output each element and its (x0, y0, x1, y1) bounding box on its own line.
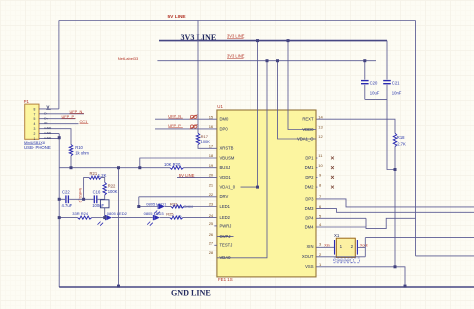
svg-text:DM1: DM1 (305, 165, 315, 170)
wire LED2 row from gnd column (59, 217, 77, 219)
svg-text:U1: U1 (217, 104, 223, 109)
svg-text:DP4: DP4 (305, 216, 314, 221)
wire 5V left drop to P1 VBUS (58, 21, 60, 109)
crystal X1 (334, 233, 360, 263)
svg-text:GND: GND (44, 136, 52, 140)
wire R23 to IC pin23 (184, 206, 217, 208)
pin stub PWRJ (214, 225, 217, 227)
svg-text:GND: GND (44, 126, 52, 130)
junction pin21 / drop A (256, 186, 259, 189)
no-ERC mark DM2 (331, 186, 334, 189)
svg-text:DP0: DP0 (220, 126, 229, 131)
svg-text:27: 27 (209, 241, 214, 246)
svg-text:XOUT: XOUT (302, 254, 314, 259)
wire P1 pin4 (39, 123, 79, 125)
capacitor C22 (62, 189, 73, 207)
resistor R20 (164, 162, 183, 169)
pin nub DP2 (316, 176, 317, 178)
LED LED1 (146, 201, 167, 214)
svg-text:22: 22 (209, 192, 214, 197)
svg-text:8: 8 (34, 107, 36, 111)
wire P1 pin7 D- (39, 113, 84, 115)
svg-text:100K: 100K (108, 189, 118, 194)
svg-text:UFP_N: UFP_N (168, 113, 181, 118)
svg-text:REXT: REXT (302, 117, 314, 122)
svg-text:VDD0: VDD0 (302, 127, 314, 132)
svg-text:DP2: DP2 (305, 175, 314, 180)
svg-text:TESTJ: TESTJ (220, 243, 233, 248)
pin name texts P1 (44, 111, 52, 139)
wire DP0 row (155, 128, 217, 130)
resistor R23 (170, 202, 193, 209)
wire 5V LINE top rail (59, 20, 416, 22)
junction DRV / LED1 row (137, 205, 140, 208)
svg-text:DM2: DM2 (305, 185, 315, 190)
svg-text:VDA1_O: VDA1_O (297, 136, 314, 141)
junction 3V3 rail / drop D (287, 39, 290, 42)
wire P1 pin2 to gnd column (39, 133, 59, 135)
svg-text:2: 2 (34, 132, 36, 136)
wire C21 column down (387, 85, 395, 170)
wire R17 top column from 5V (197, 21, 199, 134)
junction BUSJ rail / VBUSM riser (138, 166, 141, 169)
junction LED2 row / B1 (103, 216, 106, 219)
wire R25 to IC pin24 (183, 217, 217, 219)
svg-text:R18: R18 (397, 135, 405, 140)
wire P1 pin8 VBUS (39, 108, 59, 110)
wire XIN (316, 246, 334, 248)
junction NetLabel33 rail / drop B (266, 59, 269, 62)
junction GND rail / VSS drop (404, 285, 407, 288)
junction NetLabel33 rail / drop C (276, 59, 279, 62)
junction R18 / C21 column (394, 168, 397, 171)
svg-text:Component_1: Component_1 (335, 259, 355, 263)
wire R21 right to R22 (101, 178, 105, 183)
wire LED2 to LED3 (112, 217, 153, 219)
svg-text:4: 4 (34, 122, 36, 126)
svg-text:Xout: Xout (360, 244, 368, 248)
svg-text:X1: X1 (334, 233, 340, 238)
wire LED1 to R23 (165, 206, 171, 208)
svg-text:18: 18 (209, 153, 214, 158)
wire REXT pin 14 (316, 119, 395, 133)
svg-text:4.7uF: 4.7uF (62, 203, 73, 208)
svg-text:UFP_P: UFP_P (168, 123, 181, 128)
resistor R25 (166, 211, 183, 219)
wire 3V3 drop C to pin12 (278, 61, 317, 139)
wire xout riser (364, 238, 366, 257)
resistor R10 (69, 145, 89, 156)
svg-text:C20: C20 (370, 80, 378, 85)
svg-text:OVPJ: OVPJ (220, 234, 231, 239)
wire DRV drop (139, 197, 158, 207)
wire XOUT row (316, 256, 365, 258)
svg-text:BUSJ: BUSJ (220, 165, 231, 170)
wire R21 left leg (84, 178, 89, 200)
svg-text:VDA1_0: VDA1_0 (220, 185, 236, 190)
svg-text:20: 20 (209, 173, 214, 178)
capacitor C20 (361, 80, 380, 95)
svg-text:24: 24 (209, 213, 214, 218)
svg-text:5: 5 (34, 117, 36, 121)
wire DP4 stub (316, 217, 366, 219)
op-amp U1 body (217, 104, 316, 282)
wire R10 bottom (70, 156, 72, 168)
svg-text:GND: GND (44, 131, 52, 135)
junction LED2 row / GND column (58, 216, 61, 219)
wire 3V3 drop B to VDA0 (217, 61, 267, 258)
svg-text:21: 21 (209, 182, 214, 187)
svg-text:100K: 100K (201, 139, 211, 144)
no-ERC mark DP0 (190, 124, 198, 129)
svg-text:0805 LED1: 0805 LED1 (146, 201, 167, 206)
svg-text:C22: C22 (62, 189, 70, 194)
wire R24 to LED2 (92, 217, 105, 219)
wire 3V3 drop D to pin13 (288, 41, 316, 130)
svg-text:Xin: Xin (324, 244, 329, 248)
wire crystal top run right (365, 237, 474, 239)
svg-text:USB- PHONE: USB- PHONE (24, 145, 51, 150)
no-ERC mark DP2 (331, 176, 334, 179)
no-ERC mark DM0 (190, 115, 198, 120)
svg-text:D-: D- (44, 111, 47, 115)
left pin names U1 (220, 117, 236, 261)
svg-text:DRV: DRV (220, 194, 229, 199)
svg-text:3V3 LINE: 3V3 LINE (227, 54, 245, 59)
svg-text:R17: R17 (201, 134, 209, 139)
svg-text:10uF: 10uF (370, 91, 380, 96)
junction cap row / GND column (58, 198, 61, 201)
wire DM3 route (316, 209, 474, 213)
svg-text:5V LINE: 5V LINE (168, 14, 187, 20)
right pin names U1 (297, 117, 314, 270)
wire rail to R20 (59, 167, 170, 169)
svg-text:33R R24: 33R R24 (72, 211, 89, 216)
wire R20 to IC pin19 (183, 167, 217, 169)
wire P1 pin3 to R10 (39, 129, 71, 145)
junction cap row / R21 leg (82, 198, 85, 201)
connector P1 (24, 99, 51, 150)
wire cap row (59, 198, 104, 200)
svg-text:C16: C16 (93, 189, 101, 194)
wire pin21 link (241, 186, 258, 188)
svg-text:VDA0: VDA0 (220, 255, 232, 260)
svg-text:VDD1: VDD1 (220, 175, 232, 180)
svg-text:1k ohm: 1k ohm (75, 151, 89, 156)
svg-text:C21: C21 (392, 80, 400, 85)
junction BUSJ rail / GND drop (117, 166, 120, 169)
svg-text:LED2: LED2 (220, 215, 231, 220)
LED LED3 (144, 211, 165, 226)
svg-text:100uF: 100uF (92, 203, 104, 208)
svg-text:XIN: XIN (307, 244, 314, 249)
svg-text:0805 LED3: 0805 LED3 (144, 211, 165, 216)
wire DM0 row (155, 118, 217, 120)
wire C20 bottom lead (364, 85, 366, 100)
pin nub DM2 (316, 186, 317, 188)
no-ERC mark DM1 (331, 166, 334, 169)
resistor R22 (103, 182, 118, 195)
wire R18 bottom column (394, 147, 396, 267)
svg-text:PWRJ: PWRJ (220, 223, 232, 228)
svg-text:3: 3 (34, 127, 36, 131)
svg-text:25: 25 (209, 221, 214, 226)
wire 5V bottom right run (416, 255, 474, 257)
wire left GND column (58, 134, 60, 287)
wire caps bottom tie (365, 98, 387, 100)
svg-text:26: 26 (209, 232, 214, 237)
svg-text:14: 14 (318, 114, 323, 119)
junction BUSJ rail / R10 (70, 166, 73, 169)
wire DRV row 22 (139, 196, 217, 198)
svg-text:R10: R10 (75, 145, 83, 150)
pin nub DM1 (316, 167, 317, 169)
wire DP4/DM4 jog (366, 218, 416, 228)
svg-text:10: 10 (318, 163, 323, 168)
svg-text:17: 17 (209, 144, 214, 149)
wire VBUSM riser (140, 158, 217, 168)
pin stub TESTJ (214, 244, 217, 246)
svg-text:16: 16 (209, 124, 214, 129)
wire LED3 to R25 (160, 217, 170, 219)
wire R17 bottom to XRSTB (198, 145, 217, 149)
wire GND drop mid (118, 168, 120, 287)
wire second 3V3 rail (157, 60, 376, 62)
svg-text:23: 23 (209, 202, 214, 207)
wire R22 bottom (104, 195, 106, 199)
svg-text:0805 LED2: 0805 LED2 (107, 211, 128, 216)
resistor R21 (89, 171, 107, 179)
wire P1 pin1 (39, 138, 59, 140)
svg-text:LED1: LED1 (220, 204, 231, 209)
wire DP3 route (316, 199, 474, 207)
pin nub DP1 (316, 157, 317, 159)
svg-text:13: 13 (318, 125, 323, 130)
svg-text:FE1 1S: FE1 1S (218, 277, 233, 282)
svg-text:10K R20: 10K R20 (164, 162, 181, 167)
svg-text:15: 15 (209, 114, 214, 119)
svg-text:R22: R22 (108, 184, 116, 189)
svg-text:28: 28 (209, 250, 214, 255)
resistor R24 (72, 211, 91, 219)
svg-text:19: 19 (209, 163, 214, 168)
svg-text:D+: D+ (44, 116, 48, 120)
svg-text:R25: R25 (166, 211, 174, 216)
svg-text:DM3: DM3 (305, 206, 315, 211)
no-ERC mark DP1 (331, 157, 334, 160)
svg-text:DP1: DP1 (305, 155, 314, 160)
wire VSS row (316, 267, 405, 287)
right pin numbers U1 (318, 114, 323, 267)
svg-text:DM0: DM0 (220, 117, 230, 122)
wire crystal right to riser (358, 246, 366, 248)
wire C20 top lead (364, 61, 366, 80)
wire 5V right drop column (415, 21, 417, 256)
svg-text:7: 7 (34, 112, 36, 116)
junction GND rail / mid drop (117, 285, 120, 288)
junction VSS / R18 column (394, 265, 397, 268)
svg-text:10nF: 10nF (392, 91, 402, 96)
junction 3V3 rail / drop A (256, 39, 259, 42)
svg-text:GND LINE: GND LINE (171, 289, 211, 298)
svg-text:P1: P1 (24, 99, 30, 104)
resistor R18 (393, 133, 406, 146)
wire 3V3 drop A to pin21 (257, 41, 259, 188)
svg-text:DM4: DM4 (305, 224, 315, 229)
svg-text:DP3: DP3 (305, 196, 314, 201)
wire DM4 stub (316, 226, 366, 228)
svg-text:10: 10 (177, 214, 182, 219)
left pin numbers U1 (209, 114, 214, 255)
svg-text:12: 12 (318, 134, 323, 139)
svg-text:3V3 LINE: 3V3 LINE (227, 34, 245, 39)
capacitor C16 (92, 189, 104, 207)
svg-text:R21: R21 (90, 171, 98, 176)
capacitor C21 (383, 80, 402, 95)
svg-text:VSS: VSS (305, 264, 314, 269)
wire 3V3 drop to C21 (386, 41, 388, 80)
component B1 box (100, 200, 109, 218)
junction P1 pin1 / GND column (58, 136, 61, 139)
svg-text:NetLabel33: NetLabel33 (118, 56, 139, 61)
wire VDD1 pin20 (177, 176, 217, 178)
junction NetLabel33 rail / C20 (363, 59, 366, 62)
wire OVPJ strike (217, 236, 234, 238)
svg-text:NetR21_2: NetR21_2 (78, 188, 82, 203)
svg-text:XRSTB: XRSTB (220, 146, 234, 151)
svg-text:VBUSM: VBUSM (220, 155, 235, 160)
svg-text:2.7K: 2.7K (397, 142, 406, 147)
wire P1 pin5 D+ (39, 118, 75, 120)
wire GND LINE rail (59, 286, 474, 288)
wire 3V3 LINE rail (159, 40, 387, 42)
LED LED2 (98, 211, 128, 226)
resistor R17 (196, 133, 210, 144)
